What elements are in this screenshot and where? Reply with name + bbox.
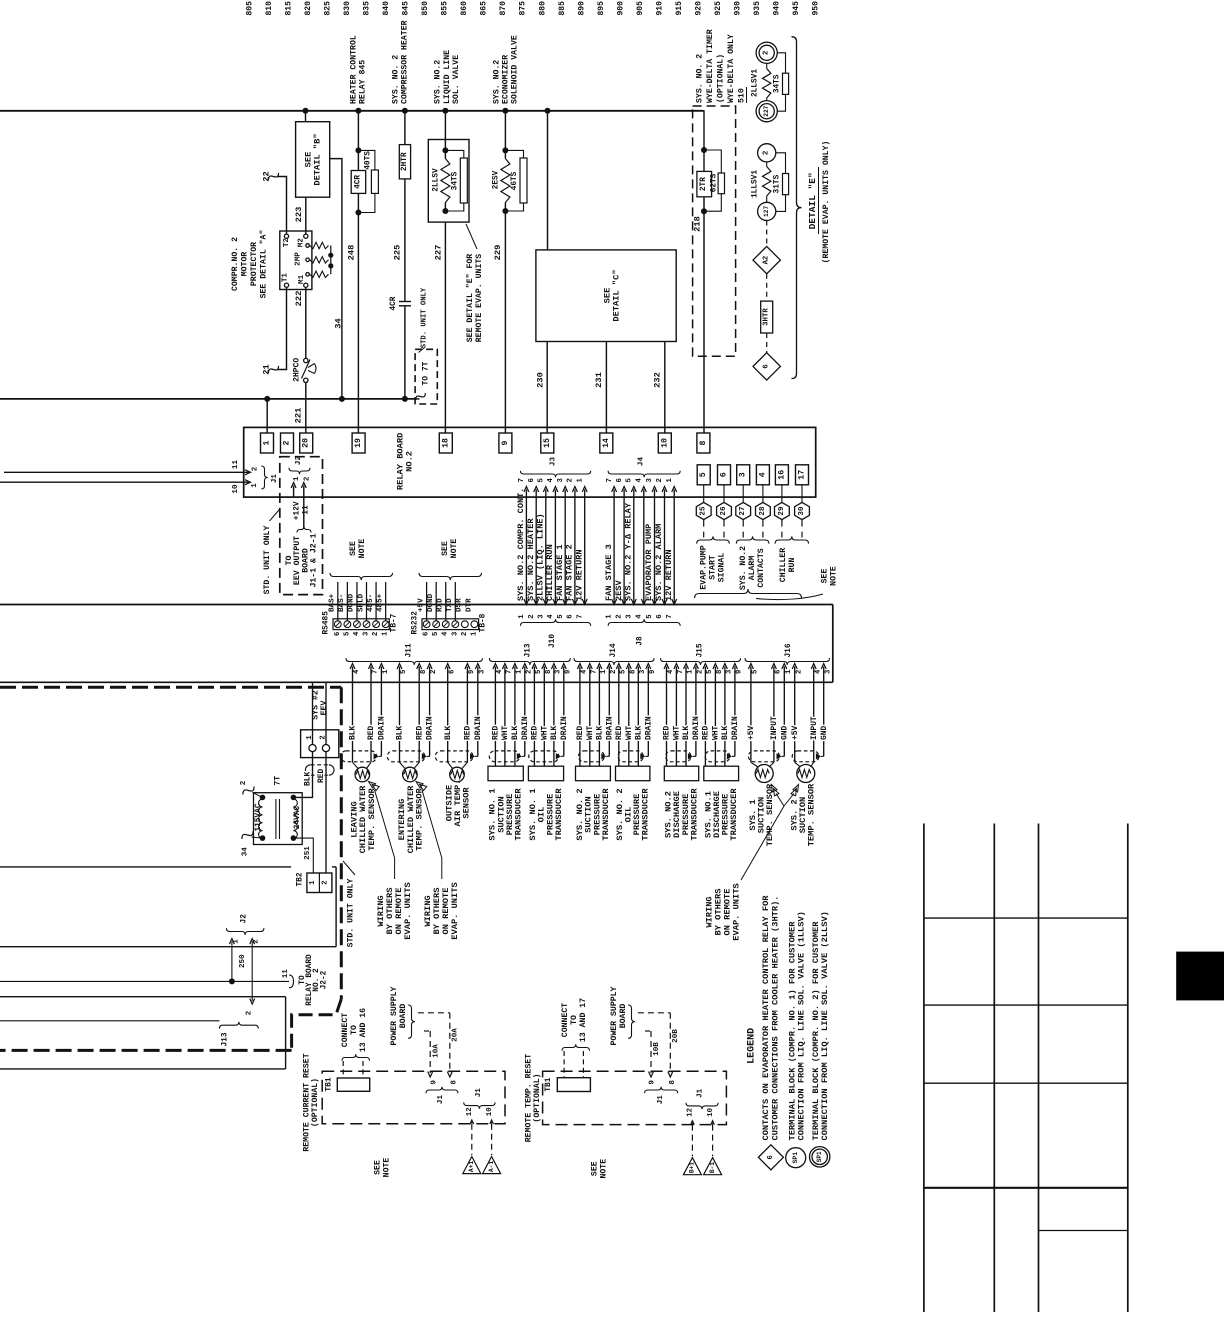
svg-text:TO: TO: [570, 1015, 579, 1025]
svg-text:NOTE: NOTE: [383, 1158, 392, 1178]
sensor sys 2 suction temp thermistor: [795, 762, 815, 782]
svg-text:12V RETURN: 12V RETURN: [574, 549, 584, 601]
svg-text:TRANSDUCER: TRANSDUCER: [729, 788, 739, 841]
svg-text:2LLSV1: 2LLSV1: [752, 69, 760, 97]
wire detail C to terminal 15: [546, 342, 548, 434]
svg-text:J11: J11: [406, 643, 414, 657]
svg-text:DRAIN: DRAIN: [560, 716, 569, 740]
wire 227 to terminal 18: [433, 222, 445, 433]
svg-text:8: 8: [545, 670, 553, 674]
svg-text:4: 4: [353, 669, 361, 674]
svg-text:RS485: RS485: [322, 611, 330, 635]
node wire color labels: [349, 716, 829, 740]
svg-text:J2-2: J2-2: [320, 970, 328, 989]
svg-text:5: 5: [626, 478, 634, 482]
op-board power supply board B: [610, 986, 680, 1077]
svg-text:WHT: WHT: [501, 726, 510, 740]
node field wire 34 to transformer: [242, 831, 263, 856]
wire 232 to terminal 10: [653, 342, 665, 434]
node label entering chilled water temp sensor: [397, 785, 424, 854]
svg-text:SYS. NO. 2: SYS. NO. 2: [696, 54, 705, 103]
svg-text:EVAPORATOR PUMP: EVAPORATOR PUMP: [644, 524, 654, 601]
svg-text:6: 6: [720, 472, 729, 477]
svg-text:DRAIN: DRAIN: [692, 716, 701, 740]
box compressor no.2 motor protector 2MP: [280, 231, 334, 290]
svg-text:8: 8: [669, 1080, 677, 1085]
svg-text:2: 2: [372, 632, 380, 636]
connector J11: [346, 643, 486, 682]
svg-text:895: 895: [597, 1, 606, 16]
svg-text:SYS. NO.2 HEATER: SYS. NO.2 HEATER: [526, 518, 536, 601]
svg-text:RUN: RUN: [788, 558, 797, 573]
svg-text:J14: J14: [610, 643, 618, 657]
node wiring by others leader suction temp sensors: [705, 785, 799, 941]
box SYS #2 EEV connector: [301, 682, 339, 757]
svg-text:835: 835: [362, 1, 371, 16]
connector J1 pins 12 10 (current reset): [464, 1088, 495, 1155]
svg-text:1: 1: [600, 669, 608, 674]
svg-text:950: 950: [812, 1, 821, 16]
svg-text:M2: M2: [297, 238, 305, 248]
wire rail B: [0, 398, 415, 400]
node column header HEATER CONTROL RELAY 845: [349, 35, 367, 104]
svg-text:J1: J1: [437, 1095, 445, 1105]
svg-text:865: 865: [480, 1, 489, 16]
svg-text:20: 20: [302, 438, 311, 448]
svg-text:10B: 10B: [653, 1042, 661, 1056]
svg-text:3: 3: [639, 669, 647, 674]
svg-text:1: 1: [518, 614, 526, 619]
svg-text:BOARD: BOARD: [399, 1004, 408, 1029]
svg-text:855: 855: [441, 1, 450, 16]
svg-text:DRAIN: DRAIN: [474, 716, 483, 740]
svg-text:2: 2: [246, 1011, 254, 1015]
node legend entry SP1 double circle: [810, 911, 831, 1167]
svg-text:5: 5: [535, 670, 543, 674]
svg-text:1: 1: [576, 477, 584, 482]
svg-text:14: 14: [602, 438, 611, 448]
sensor sys 1 suction temp thermistor: [751, 762, 774, 782]
svg-text:TB-7: TB-7: [391, 613, 399, 632]
wire 34 from detail B to rail B: [330, 159, 344, 399]
svg-text:EVAP.PUMP: EVAP.PUMP: [699, 545, 708, 589]
svg-text:19: 19: [354, 438, 363, 448]
capacitor 4CR: [390, 296, 411, 399]
node wiring by others leader 2: [416, 782, 460, 940]
svg-text:CHILLER: CHILLER: [779, 548, 788, 582]
svg-text:SEE: SEE: [821, 569, 830, 584]
svg-text:6: 6: [775, 670, 783, 674]
svg-text:2ESV: 2ESV: [614, 580, 624, 601]
node CONNECT TO 13 AND 16: [341, 1008, 370, 1078]
svg-text:12: 12: [466, 1107, 474, 1116]
svg-text:115VAC: 115VAC: [255, 803, 263, 831]
svg-text:SIGNAL: SIGNAL: [717, 553, 726, 583]
wire sensor leads below main board: [353, 682, 824, 766]
node detail E brace and title: [792, 37, 832, 379]
svg-text:7: 7: [677, 670, 685, 674]
svg-text:STD. UNIT ONLY: STD. UNIT ONLY: [347, 879, 356, 948]
svg-text:+5V: +5V: [791, 726, 800, 740]
svg-text:30: 30: [798, 506, 806, 516]
svg-text:B+1: B+1: [689, 1162, 696, 1173]
svg-text:RED: RED: [317, 769, 326, 783]
node terminal block RS485 TB-7: [322, 539, 398, 636]
svg-text:905: 905: [636, 1, 645, 16]
node label sys no.1 oil pressure transducer: [528, 788, 564, 841]
svg-text:BOARD: BOARD: [619, 1004, 628, 1029]
svg-text:B-1: B-1: [709, 1162, 716, 1173]
svg-text:231: 231: [594, 372, 604, 388]
svg-text:20B: 20B: [672, 1029, 680, 1043]
svg-text:25: 25: [700, 506, 708, 516]
svg-text:SEE: SEE: [374, 1160, 383, 1175]
node junction dots on rail A: [303, 108, 551, 114]
svg-text:J10: J10: [549, 634, 557, 648]
svg-text:7: 7: [606, 478, 614, 482]
node legend entry diamond 6: [758, 895, 783, 1170]
node page tab black marker: [1176, 952, 1224, 1001]
svg-text:CONNECT: CONNECT: [341, 1013, 350, 1047]
box dashed remote temp reset optional: [524, 1054, 726, 1143]
svg-text:WHT: WHT: [673, 726, 682, 740]
svg-text:5: 5: [557, 614, 565, 618]
relay coil 2TR with 62TS: [697, 147, 725, 214]
svg-text:MOTOR: MOTOR: [241, 252, 250, 277]
svg-text:POWER SUPPLY: POWER SUPPLY: [610, 986, 619, 1045]
svg-text:PROTECTOR: PROTECTOR: [250, 242, 259, 286]
svg-text:5: 5: [752, 670, 760, 674]
svg-text:SYS. NO.2: SYS. NO.2: [434, 60, 443, 104]
svg-text:DRAIN: DRAIN: [644, 716, 653, 740]
node cable shield capsules: [341, 751, 824, 762]
wire 231 to terminal 14: [594, 342, 606, 434]
svg-text:1: 1: [382, 669, 390, 674]
svg-text:4: 4: [496, 669, 504, 674]
svg-text:1: 1: [516, 669, 524, 674]
relay coil 4CR with thermostat 40TS (heater control relay): [351, 111, 378, 216]
connector J8: [606, 599, 681, 646]
svg-text:31TS: 31TS: [774, 174, 782, 193]
svg-text:9: 9: [649, 1080, 657, 1084]
svg-text:BLK: BLK: [396, 726, 405, 740]
svg-text:(OPTIONAL): (OPTIONAL): [716, 54, 726, 103]
svg-text:BLK: BLK: [721, 726, 730, 740]
node column header SYS NO.2 ECONOMIZER SOLENOID VALVE: [493, 35, 520, 104]
svg-text:J1: J1: [475, 1088, 483, 1098]
svg-text:J2: J2: [240, 914, 248, 924]
node SEE NOTE (temp reset): [591, 1159, 609, 1179]
svg-text:2: 2: [763, 50, 771, 55]
svg-text:227: 227: [763, 105, 770, 116]
svg-text:GND: GND: [820, 726, 829, 740]
svg-text:RED: RED: [464, 726, 473, 740]
svg-text:8: 8: [699, 440, 708, 445]
op-board power supply board A: [390, 986, 460, 1077]
svg-text:485+: 485+: [376, 593, 384, 612]
svg-text:DETAIL "E": DETAIL "E": [807, 172, 818, 229]
node detail E remote evap units only: [752, 42, 789, 122]
transformer 7T 115VAC/24VAC: [254, 776, 303, 845]
sensor outside air temp thermistor: [448, 762, 468, 782]
node signal labels J3 wires: [516, 488, 584, 601]
svg-text:5: 5: [432, 632, 440, 636]
svg-text:HEATER CONTROL: HEATER CONTROL: [349, 35, 358, 104]
svg-text:2MP: 2MP: [295, 252, 303, 266]
svg-text:EVAP. UNITS: EVAP. UNITS: [450, 882, 460, 939]
svg-text:6: 6: [767, 1155, 775, 1159]
svg-text:940: 940: [773, 1, 782, 16]
svg-text:2: 2: [610, 670, 618, 674]
svg-text:4: 4: [758, 472, 767, 477]
node EEV cable shield capsule: [304, 765, 334, 786]
svg-text:2: 2: [252, 466, 260, 471]
wire rail B to terminal 1: [266, 399, 268, 433]
svg-text:2: 2: [303, 476, 311, 481]
svg-text:9: 9: [501, 440, 510, 445]
node wiring by others leader 1: [369, 782, 414, 940]
svg-text:6: 6: [567, 614, 575, 618]
svg-text:SYS. NO.2: SYS. NO.2: [493, 60, 502, 104]
svg-text:TEMP. SENSOR: TEMP. SENSOR: [414, 787, 424, 850]
svg-text:9: 9: [649, 670, 657, 674]
svg-text:SYS. NO.2 Y-Δ RELAY: SYS. NO.2 Y-Δ RELAY: [624, 502, 634, 601]
svg-text:2: 2: [697, 670, 705, 674]
svg-text:DGND: DGND: [427, 593, 435, 612]
svg-text:FAN STAGE 3: FAN STAGE 3: [604, 544, 614, 601]
svg-text:6: 6: [616, 478, 624, 482]
wire 225: [393, 179, 405, 302]
svg-text:227: 227: [433, 245, 443, 261]
heater 3HTR: [761, 274, 773, 333]
wire thick dashed std-unit boundary: [0, 687, 341, 1050]
svg-text:11: 11: [282, 969, 290, 979]
svg-text:218: 218: [693, 216, 703, 232]
node label STD. UNIT ONLY (boundary): [343, 861, 356, 947]
svg-text:POWER SUPPLY: POWER SUPPLY: [390, 986, 399, 1045]
svg-text:3: 3: [824, 669, 832, 674]
svg-text:CONNECTION FROM LIQ. LINE SOL.: CONNECTION FROM LIQ. LINE SOL. VALVE (1L…: [797, 911, 807, 1140]
svg-text:REMOTE EVAP. UNITS: REMOTE EVAP. UNITS: [475, 254, 484, 343]
svg-text:2: 2: [525, 670, 533, 674]
node label sys 1 suction temp sensor: [748, 783, 775, 846]
svg-text:SYS. NO.2: SYS. NO.2: [739, 546, 748, 590]
svg-text:RED: RED: [576, 726, 585, 740]
svg-text:5: 5: [699, 472, 708, 477]
svg-text:62TS: 62TS: [711, 173, 719, 192]
connector J3 pins on relay board: [518, 457, 591, 605]
svg-text:CONNECTION FROM LIQ. LINE SOL.: CONNECTION FROM LIQ. LINE SOL. VALVE (2L…: [820, 911, 830, 1140]
svg-text:DRAIN: DRAIN: [605, 716, 614, 740]
svg-text:820: 820: [304, 1, 313, 16]
svg-text:2LLSV (LIQ. LINE): 2LLSV (LIQ. LINE): [536, 513, 546, 601]
svg-text:1: 1: [687, 669, 695, 674]
svg-text:J8: J8: [637, 636, 645, 646]
svg-text:1: 1: [309, 880, 317, 885]
svg-text:16: 16: [777, 470, 786, 480]
svg-text:28: 28: [759, 506, 767, 516]
svg-text:845: 845: [402, 1, 411, 16]
svg-text:A+1: A+1: [468, 1161, 475, 1172]
heater 2HTR sys no.2 compressor heater: [399, 111, 410, 179]
svg-text:J13: J13: [525, 643, 533, 657]
svg-text:RED: RED: [415, 726, 424, 740]
svg-text:7: 7: [518, 478, 526, 482]
svg-text:(OPTIONAL): (OPTIONAL): [310, 1078, 320, 1127]
svg-text:TEMP. SENSOR: TEMP. SENSOR: [807, 783, 817, 846]
svg-text:4CR: 4CR: [390, 296, 398, 310]
svg-text:930: 930: [734, 1, 743, 16]
svg-text:248: 248: [346, 245, 356, 261]
node signal labels J4 wires: [604, 502, 674, 601]
svg-text:9: 9: [468, 670, 476, 674]
svg-text:8: 8: [450, 1080, 458, 1085]
svg-text:4: 4: [353, 631, 361, 636]
wire 11 to relay board no.2 J2-2: [0, 954, 328, 1006]
node label STD. UNIT ONLY (eev output): [263, 509, 280, 594]
svg-text:WHT: WHT: [625, 726, 634, 740]
svg-text:22: 22: [262, 171, 272, 181]
node LEGEND title: [747, 1028, 758, 1064]
svg-text:10A: 10A: [432, 1044, 440, 1058]
node column header SYS NO.2 WYE-DELTA TIMER OPTIONAL 510: [696, 29, 747, 103]
svg-text:RED: RED: [367, 726, 376, 740]
svg-text:J1: J1: [697, 1088, 705, 1098]
svg-text:485-: 485-: [367, 594, 375, 612]
op-board lower board no.2 outline: [0, 997, 286, 1069]
connector J4 pins on relay board: [606, 457, 680, 605]
svg-text:7T: 7T: [274, 776, 283, 786]
node flag triangles A+1 A-1: [463, 1157, 501, 1174]
svg-text:910: 910: [655, 1, 664, 16]
svg-text:J3: J3: [550, 457, 558, 467]
svg-text:J13: J13: [222, 1032, 230, 1046]
node label outside air temp sensor: [444, 780, 471, 827]
svg-text:T2: T2: [283, 238, 291, 248]
svg-text:REMOTE TEMP. RESET: REMOTE TEMP. RESET: [524, 1054, 533, 1143]
node terminal block TB1 (temp reset): [545, 1077, 590, 1091]
svg-text:4: 4: [636, 477, 644, 482]
solenoid valve 2ESV with 46TS economizer: [493, 111, 527, 214]
svg-text:805: 805: [245, 1, 254, 16]
svg-text:FAN STAGE 2: FAN STAGE 2: [565, 544, 575, 601]
svg-text:34TS: 34TS: [774, 74, 782, 93]
node SEE NOTE (current reset): [374, 1158, 392, 1178]
svg-text:12V RETURN: 12V RETURN: [664, 549, 674, 601]
svg-text:925: 925: [714, 1, 723, 16]
svg-text:1: 1: [251, 483, 259, 488]
svg-text:T1: T1: [281, 273, 289, 283]
svg-text:ECONOMIZER: ECONOMIZER: [502, 55, 511, 104]
node big brace with SEE NOTE leader: [695, 566, 839, 599]
svg-text:WHT: WHT: [586, 726, 595, 740]
svg-text:29: 29: [778, 506, 786, 516]
op-board RELAY BOARD NO.2 outline: [244, 427, 816, 497]
svg-text:8: 8: [716, 670, 724, 674]
svg-text:3: 3: [726, 669, 734, 674]
svg-text:TRANSDUCER: TRANSDUCER: [641, 788, 651, 841]
svg-text:TB1: TB1: [325, 1077, 333, 1091]
svg-text:J1: J1: [271, 474, 279, 484]
node relay board terminals row 2: [697, 465, 808, 485]
svg-text:24VAC: 24VAC: [294, 805, 302, 829]
svg-text:J16: J16: [785, 643, 793, 657]
svg-text:6: 6: [448, 670, 456, 674]
svg-text:4: 4: [667, 669, 675, 674]
svg-text:SP1: SP1: [792, 1152, 799, 1164]
node legend entry SP1 single circle: [786, 911, 807, 1168]
svg-text:DGND: DGND: [348, 593, 356, 612]
svg-text:RED: RED: [492, 726, 501, 740]
node terminal block TB1 (current reset): [325, 1077, 369, 1091]
node label sys no.2 discharge pressure transducer: [664, 788, 700, 841]
node field wire 2 to transformer: [240, 780, 263, 797]
svg-text:ALARM: ALARM: [748, 556, 757, 581]
svg-text:221: 221: [294, 408, 304, 424]
svg-text:5: 5: [646, 614, 654, 618]
svg-text:EVAP. UNITS: EVAP. UNITS: [403, 882, 413, 939]
svg-text:26: 26: [720, 506, 728, 516]
svg-text:2: 2: [322, 880, 330, 884]
svg-text:2: 2: [763, 150, 771, 155]
svg-text:CONTACTS: CONTACTS: [757, 548, 766, 587]
svg-text:1: 1: [606, 614, 614, 619]
node label sys 2 suction temp sensor: [789, 783, 816, 846]
svg-text:46TS: 46TS: [511, 171, 519, 190]
box dashed J2 to EEV output board: [280, 457, 323, 595]
svg-text:915: 915: [675, 1, 684, 16]
svg-text:920: 920: [694, 1, 703, 16]
solenoid valve 2LLSV with 34TS in solid box: [428, 111, 469, 222]
svg-text:RS232: RS232: [412, 611, 420, 635]
svg-text:DETAIL "B": DETAIL "B": [312, 133, 322, 185]
svg-text:5: 5: [400, 670, 408, 674]
svg-text:STD. UNIT ONLY: STD. UNIT ONLY: [421, 287, 429, 348]
svg-text:3: 3: [451, 632, 459, 636]
node group braces and labels evap pump / alarm / chiller run: [697, 536, 809, 590]
svg-text:5: 5: [343, 632, 351, 636]
svg-text:229: 229: [493, 245, 503, 261]
svg-text:885: 885: [558, 1, 567, 16]
connector J2 lower: [226, 914, 264, 1015]
svg-text:SEE DETAIL "E" FOR: SEE DETAIL "E" FOR: [465, 254, 475, 343]
svg-text:WHT: WHT: [540, 726, 549, 740]
svg-text:1: 1: [470, 631, 478, 636]
svg-text:J1-1 & J2-1: J1-1 & J2-1: [310, 533, 319, 587]
svg-text:2: 2: [528, 614, 536, 618]
node terminal block RS232 TB-8: [412, 539, 488, 636]
svg-text:INPUT: INPUT: [770, 716, 779, 740]
svg-text:1: 1: [263, 440, 272, 445]
svg-text:FAN STAGE 1: FAN STAGE 1: [555, 544, 565, 601]
connector J2 pins on relay board: [289, 456, 311, 529]
svg-text:7: 7: [666, 614, 674, 618]
svg-text:SYS. NO.2 COMPR. CONT.: SYS. NO.2 COMPR. CONT.: [516, 488, 526, 601]
svg-text:2TR: 2TR: [700, 177, 708, 191]
box dashed TO 7T std unit only: [415, 287, 437, 404]
svg-text:1LLSV1: 1LLSV1: [752, 170, 760, 198]
node schedule table grid: [924, 824, 1128, 1313]
node label sys no.1 suction pressure transducer: [488, 788, 524, 841]
svg-text:TO: TO: [350, 1025, 359, 1035]
svg-text:CHILLER RUN: CHILLER RUN: [545, 544, 555, 601]
svg-text:DRAIN: DRAIN: [731, 716, 740, 740]
svg-text:3: 3: [625, 614, 633, 619]
svg-text:COMPR.NO. 2: COMPR.NO. 2: [231, 237, 240, 291]
svg-text:START: START: [708, 555, 717, 580]
svg-text:NOTE: NOTE: [450, 539, 459, 559]
svg-text:BLK: BLK: [511, 726, 520, 740]
